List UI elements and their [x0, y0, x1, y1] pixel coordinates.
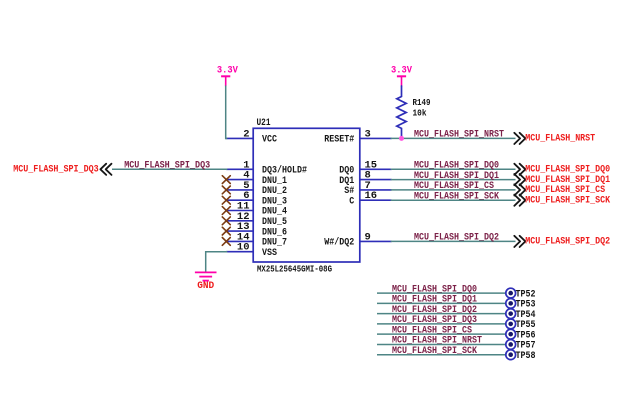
svg-text:3.3V: 3.3V — [217, 65, 239, 77]
svg-text:MCU_FLASH_SPI_DQ3: MCU_FLASH_SPI_DQ3 — [13, 164, 99, 176]
svg-text:C: C — [349, 195, 355, 207]
svg-text:MCU_FLASH_SPI_SCK: MCU_FLASH_SPI_SCK — [414, 190, 500, 202]
svg-text:VCC: VCC — [262, 134, 278, 146]
svg-text:MCU_FLASH_SPI_DQ2: MCU_FLASH_SPI_DQ2 — [414, 232, 499, 244]
svg-text:MCU_FLASH_SPI_SCK: MCU_FLASH_SPI_SCK — [392, 345, 478, 357]
svg-text:MCU_FLASH_NRST: MCU_FLASH_NRST — [525, 133, 595, 145]
svg-text:16: 16 — [365, 190, 378, 202]
svg-text:2: 2 — [243, 128, 249, 140]
svg-text:GND: GND — [197, 280, 214, 292]
svg-text:MCU_FLASH_SPI_DQ3: MCU_FLASH_SPI_DQ3 — [124, 160, 210, 172]
svg-text:3: 3 — [365, 128, 371, 140]
svg-text:MX25L25645GMI-08G: MX25L25645GMI-08G — [257, 265, 332, 275]
svg-text:TP58: TP58 — [516, 350, 536, 362]
svg-text:MCU_FLASH_SPI_NRST: MCU_FLASH_SPI_NRST — [414, 129, 504, 141]
svg-text:RESET#: RESET# — [324, 134, 354, 146]
svg-text:10: 10 — [237, 242, 250, 254]
svg-text:MCU_FLASH_SPI_DQ2: MCU_FLASH_SPI_DQ2 — [525, 236, 610, 248]
svg-text:VSS: VSS — [262, 247, 277, 259]
svg-text:R149: R149 — [413, 98, 431, 108]
svg-text:3.3V: 3.3V — [391, 65, 413, 77]
svg-text:MCU_FLASH_SPI_SCK: MCU_FLASH_SPI_SCK — [525, 194, 611, 206]
svg-text:9: 9 — [365, 231, 371, 243]
svg-text:U21: U21 — [257, 117, 271, 129]
svg-text:W#/DQ2: W#/DQ2 — [324, 237, 354, 249]
svg-text:10k: 10k — [413, 108, 428, 118]
